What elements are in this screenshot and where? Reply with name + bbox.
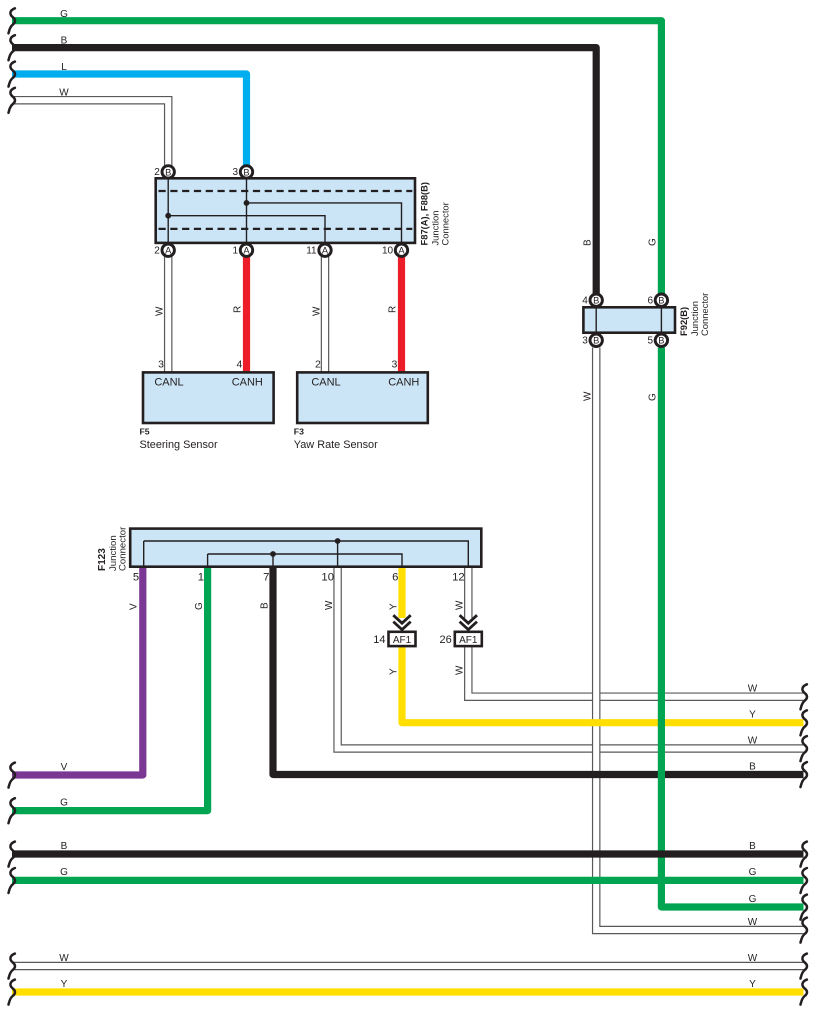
wire label W to yaw CANL (vertical) [312,306,323,316]
wire G from left edge across top down to F92 pin 6B [12,21,661,295]
svg-text:W: W [312,306,323,316]
label Connector of F123 [117,526,128,571]
svg-text:B: B [61,36,68,47]
internal wire F123 lower bus pin 1 to pin 6 [208,554,402,566]
svg-text:1: 1 [233,245,239,256]
junction dot F123 lower bus at pin 7 [270,551,276,557]
svg-text:2: 2 [315,358,321,370]
label CANH of yaw rate sensor [388,376,419,388]
wire L from left edge down to F87 pin 3B [12,74,247,166]
svg-text:L: L [61,62,67,73]
svg-text:Y: Y [749,710,756,721]
wire label B from F123 (vertical) [260,602,271,609]
svg-text:3: 3 [582,335,588,346]
svg-text:G: G [648,238,659,246]
left continuation mark for wire G [9,8,16,33]
wire label W from F123 pin 12 (vertical) [455,600,466,610]
svg-text:B: B [658,296,664,306]
svg-text:AF1: AF1 [393,635,412,646]
svg-text:G: G [60,797,68,808]
wire label W right from AF1 26 [748,684,758,695]
svg-text:3: 3 [233,167,239,178]
left continuation mark for wire L [9,62,16,87]
svg-text:G: G [194,602,205,610]
wire W from left edge to F87 pin 2B [12,100,168,165]
right continuation mark for wire B [801,842,808,867]
svg-text:Y: Y [61,979,68,990]
wire V from F123 pin 5 down then left to left edge [12,566,143,775]
svg-text:6: 6 [647,295,653,306]
svg-text:CANH: CANH [232,376,263,388]
right continuation mark for wire W [801,684,808,709]
label Connector of F92 [699,293,710,336]
pin 1 A of F87 junction connector [233,244,253,256]
wire B from F123 pin 7 down then right to right edge [273,566,804,775]
wire label B right [749,761,756,772]
wire B from left edge down to F92 pin 4B [12,48,596,295]
label Junction of F123 [108,535,119,571]
svg-text:G: G [648,393,659,401]
right continuation mark for wire W [801,954,808,979]
svg-text:B: B [593,336,599,346]
svg-text:V: V [61,762,68,773]
wire label Y bottom left [61,979,68,990]
svg-text:CANL: CANL [311,376,340,388]
svg-text:14: 14 [373,634,385,646]
internal wire F87 pin 3B to 1A [246,178,248,250]
right continuation mark for wire Y [801,980,808,1005]
svg-text:V: V [129,603,140,610]
wire label G top [60,9,68,20]
svg-text:3: 3 [158,358,164,370]
right continuation mark for wire Y [801,710,808,735]
svg-text:B: B [658,336,664,346]
steering sensor F5 box [143,372,274,423]
wire label R to steering CANH (vertical) [233,306,244,313]
label F92(B) [678,307,689,336]
svg-text:W: W [748,917,758,928]
svg-text:10: 10 [321,572,334,584]
left continuation mark for wire B [9,842,16,867]
wire label G right from F92 [749,894,757,905]
wire label W right from pin 10 [748,735,758,746]
left continuation mark for wire W [9,88,16,113]
svg-text:W: W [748,735,758,746]
internal wire F87 branch to pin 10A [247,203,402,250]
svg-text:Connector: Connector [699,293,710,336]
svg-text:5: 5 [133,572,139,584]
svg-text:B: B [243,167,249,177]
wire label W bottom right [748,953,758,964]
right continuation mark for wire G [801,895,808,920]
internal wire F87 pin 2B to 2A [167,178,169,250]
svg-text:G: G [60,9,68,20]
label CANH of steering sensor [232,376,263,388]
left continuation mark for wire G [9,868,16,893]
svg-text:Y: Y [389,668,400,675]
wire Y from AF1 pin 14 down then right to right edge [402,645,804,723]
svg-text:CANL: CANL [154,376,183,388]
left continuation mark for wire Y [9,980,16,1005]
svg-text:Yaw Rate Sensor: Yaw Rate Sensor [294,439,378,451]
svg-text:CANH: CANH [388,376,419,388]
svg-text:W: W [59,953,69,964]
wire label B top [61,36,68,47]
pin number 7 of F123 [263,572,269,584]
svg-text:AF1: AF1 [459,635,478,646]
label F87(A) F88(B) [419,182,430,246]
svg-text:Connector: Connector [440,202,451,245]
svg-text:W: W [324,600,335,610]
left continuation mark for wire B [9,35,16,60]
junction dot F123 top bus at pin 10 [335,538,341,544]
svg-text:2: 2 [154,245,160,256]
wire W from F123 pin 10 down then right to right edge [338,566,804,749]
svg-text:W: W [59,87,69,98]
wire W from F87 pin 2A to Steering Sensor pin 3 [164,256,173,373]
wire label G from F123 (vertical) [194,602,205,610]
pin number 2 of yaw rate sensor [315,358,321,370]
wire R from F87 pin 1A to Steering Sensor pin 4 [243,256,250,373]
wire W full width near bottom [12,962,804,971]
svg-text:F87(A), F88(B): F87(A), F88(B) [419,182,430,246]
wire label V left [61,762,68,773]
left continuation mark for wire W [9,954,16,979]
label Junction of F92 [689,301,700,336]
wire label W bottom left [59,953,69,964]
svg-text:F92(B): F92(B) [678,307,689,336]
pin number 6 of F123 [392,572,398,584]
junction dot F87 at pin 3B branch [244,200,250,206]
pin 3 B of F87 junction connector [233,166,253,178]
left continuation mark for wire V [9,763,16,788]
label CANL of steering sensor [154,376,183,388]
svg-text:Connector: Connector [117,526,128,571]
wire W from F92 pin 3B down then right to right edge [596,348,803,931]
pin 3 B of F92 junction connector [582,334,602,346]
svg-text:3: 3 [391,358,397,370]
svg-text:B: B [260,602,271,609]
pin 6 B of F92 junction connector [647,294,667,306]
wire label L top [61,62,67,73]
wire label W top [59,87,69,98]
svg-text:5: 5 [647,335,653,346]
svg-text:7: 7 [263,572,269,584]
internal wire F123 pin 10 vertical [337,541,339,566]
label F123 [97,548,108,571]
wire Y from F123 pin 6 down to AF1 connector [398,566,405,618]
label F5 [140,426,218,451]
junction connector F87(A) F88(B) box [156,178,415,243]
wire label W vertical from F92 (vertical) [583,391,594,401]
internal wire F123 pin 5 vertical [143,541,145,566]
svg-text:W: W [583,391,594,401]
left continuation mark for wire G [9,798,16,823]
wire label B full right [749,841,756,852]
wire W from F87 pin 11A to Yaw Rate Sensor pin 2 [321,256,330,373]
internal wire F87 branch to pin 11A [168,216,325,250]
yaw rate sensor F3 box [297,372,428,423]
svg-text:11: 11 [306,245,317,256]
wire label G full left [60,867,68,878]
wire label G left [60,797,68,808]
svg-text:W: W [455,600,466,610]
internal wire F92 pin 6B to 5B [660,307,662,332]
svg-text:B: B [749,841,756,852]
internal wire F123 top bus pin 5 to pin 12 [144,541,469,566]
svg-text:Y: Y [749,979,756,990]
svg-text:10: 10 [382,245,394,256]
svg-text:W: W [748,684,758,695]
wire label W right from F92 [748,917,758,928]
wire label W from F123 pin 10 (vertical) [324,600,335,610]
pin 2 A of F87 junction connector [154,244,174,256]
junction connector F123 box [130,529,481,567]
wire label W to steering CANL (vertical) [155,306,166,316]
pin 2 B of F87 junction connector [154,166,174,178]
svg-text:W: W [155,306,166,316]
internal wire F123 pin 7 vertical [272,554,274,566]
svg-text:F5: F5 [140,426,150,436]
svg-text:26: 26 [440,634,452,646]
pin number 3 of steering sensor [158,358,164,370]
svg-text:W: W [455,665,466,675]
wire B full width [12,850,804,857]
label Junction of F87 [430,211,441,246]
svg-text:G: G [749,894,757,905]
wire G full width [12,877,804,884]
svg-text:Y: Y [389,603,400,610]
pin 5 B of F92 junction connector [647,334,667,346]
wire G from F92 pin 5B down then right to right edge [661,348,803,908]
svg-text:A: A [243,246,250,256]
svg-text:R: R [233,306,244,313]
label CANL of yaw rate sensor [311,376,340,388]
wire Y full width at bottom [12,988,804,995]
svg-text:B: B [593,296,599,306]
svg-text:12: 12 [452,572,465,584]
svg-text:A: A [165,246,172,256]
svg-text:A: A [398,246,405,256]
svg-text:A: A [322,246,329,256]
right continuation mark for wire B [801,762,808,787]
svg-text:F123: F123 [97,548,108,571]
junction dot F87 at pin 2B branch [165,213,171,219]
wire label W below AF1 (vertical) [455,665,466,675]
svg-text:F3: F3 [294,426,304,436]
svg-text:1: 1 [198,572,204,584]
wire label B vertical to F92 (vertical) [583,239,594,246]
wire label B full left [61,841,68,852]
internal wire F123 pin 1 vertical [207,554,209,566]
pin number 5 of F123 [133,572,139,584]
wire label G full right [749,867,757,878]
connector AF1 pin 26 [440,615,482,646]
pin 11 A of F87 junction connector [306,244,331,256]
wire G from F123 pin 1 down then left to left edge [12,566,208,811]
connector AF1 pin 14 [373,615,415,646]
svg-text:B: B [583,239,594,246]
label Connector of F87 [440,202,451,245]
right continuation mark for wire W [801,918,808,943]
svg-text:4: 4 [236,358,242,370]
svg-text:W: W [748,953,758,964]
pin number 1 of F123 [198,572,204,584]
wire label V from F123 (vertical) [129,603,140,610]
wire label G vertical from F92 (vertical) [648,393,659,401]
svg-text:B: B [749,761,756,772]
wire W from AF1 pin 26 down then right to right edge [468,645,803,697]
pin number 12 of F123 [452,572,465,584]
right continuation mark for wire W [801,736,808,761]
wire label Y from F123 (vertical) [389,603,400,610]
wire R from F87 pin 10A to Yaw Rate Sensor pin 3 [398,256,405,373]
wire label Y right [749,710,756,721]
svg-text:G: G [749,867,757,878]
svg-text:B: B [61,841,68,852]
label F3 [294,426,378,451]
wire label Y below AF1 (vertical) [389,668,400,675]
svg-text:B: B [165,167,171,177]
svg-text:Steering Sensor: Steering Sensor [140,439,218,451]
wire label Y bottom right [749,979,756,990]
pin number 10 of F123 [321,572,334,584]
right continuation mark for wire G [801,868,808,893]
internal wire F92 pin 4B to 3B [595,307,597,332]
svg-text:G: G [60,867,68,878]
pin number 3 of yaw rate sensor [391,358,397,370]
wire label R to yaw CANH (vertical) [388,306,399,313]
svg-text:4: 4 [582,295,588,306]
wire label G vertical to F92 (vertical) [648,238,659,246]
svg-text:R: R [388,306,399,313]
pin 10 A of F87 junction connector [382,244,408,256]
svg-text:2: 2 [154,167,160,178]
svg-text:6: 6 [392,572,398,584]
junction connector F92(B) box [583,307,675,332]
pin 4 B of F92 junction connector [582,294,602,306]
wire W from F123 pin 12 down to AF1 connector [464,566,473,618]
pin number 4 of steering sensor [236,358,242,370]
